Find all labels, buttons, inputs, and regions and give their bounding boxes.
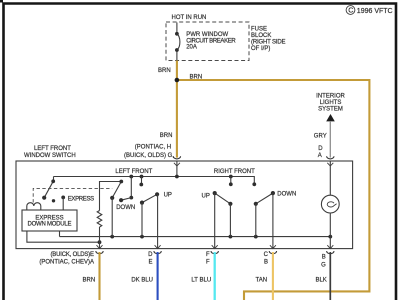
power bus wire inside switch: [54, 177, 255, 185]
wire ground bus to connector B: [329, 237, 331, 249]
label: FUSE BLOCK (RIGHT SIDE OF I/P): [251, 26, 286, 52]
resistor R bottom lead: [99, 227, 101, 242]
wire left front UP output down to connector D: [157, 194, 159, 248]
wire up blade to ground bus A: [141, 203, 143, 237]
svg-text:PWR WINDOW: PWR WINDOW: [186, 32, 228, 38]
svg-text:LIGHTS: LIGHTS: [320, 100, 342, 106]
express switch pivot riser: [53, 177, 55, 182]
wire BRN to window motor (bottom): [98, 252, 100, 300]
svg-text:BRN: BRN: [83, 278, 96, 284]
svg-text:20A: 20A: [186, 45, 197, 51]
wire BRN main feed: junction right then down right side then bottom elbow: [177, 80, 370, 300]
svg-text:DOWN: DOWN: [116, 205, 135, 211]
svg-text:DOWN MODULE: DOWN MODULE: [28, 221, 72, 227]
svg-text:UP: UP: [164, 193, 172, 199]
svg-text:OF I/P): OF I/P): [251, 46, 270, 52]
svg-text:(BUICK, OLDS)E: (BUICK, OLDS)E: [51, 252, 95, 258]
svg-text:BLOCK: BLOCK: [251, 33, 271, 39]
express down module connector comb: [27, 203, 41, 210]
junction dots on bus: [129, 175, 133, 179]
resistor R zigzag: [97, 211, 102, 228]
right front UP switch blade: [215, 193, 231, 204]
copyright notice: [346, 6, 392, 15]
express down module box: [22, 210, 77, 231]
wire right front UP output down to connector F: [214, 193, 216, 248]
svg-text:LEFT FRONT: LEFT FRONT: [115, 169, 152, 175]
svg-text:HOT IN RUN: HOT IN RUN: [172, 15, 207, 21]
svg-text:WINDOW SWITCH: WINDOW SWITCH: [24, 153, 76, 159]
corner mark: [0, 0, 3, 3]
svg-text:(RIGHT SIDE: (RIGHT SIDE: [251, 39, 286, 45]
svg-text:GRY: GRY: [314, 134, 327, 140]
wire LT BLU: [214, 252, 216, 300]
bottom connector arrowheads: [97, 245, 334, 248]
svg-text:SYSTEM: SYSTEM: [318, 107, 343, 113]
svg-text:E: E: [148, 260, 152, 266]
express switch contacts: [52, 199, 55, 202]
mechanical linkage dashed line: [33, 188, 112, 202]
ground bus A inside switch: [60, 236, 331, 238]
wire right front DOWN output down to connector C: [272, 193, 274, 248]
svg-text:(PONTIAC, H: (PONTIAC, H: [135, 144, 171, 150]
resistor R top lead and link to down pivot: [100, 182, 122, 211]
left front DOWN switch blade (express linked): [112, 182, 121, 198]
svg-text:BRN: BRN: [158, 68, 171, 74]
arrow to interior lights system: [326, 114, 335, 121]
wire right front UP blade to ground bus A: [229, 204, 231, 237]
right front feed stub: [230, 177, 232, 185]
wire express contact to module: [62, 197, 64, 210]
svg-text:B: B: [264, 260, 268, 266]
off-page reference: INTERIOR LIGHTS SYSTEM: [316, 93, 345, 112]
junction dots on bus A: [110, 235, 114, 239]
circuit breaker CB arc: [177, 34, 180, 50]
illumination lamp L1: [321, 195, 339, 213]
wire lamp to ground bus A: [329, 213, 331, 237]
wire from down blade to ground bus A: [111, 198, 113, 237]
left front window switch box: [16, 161, 353, 249]
circuit breaker CB contact dots: [175, 32, 179, 36]
wire from connector G/H down to bus: [176, 161, 178, 177]
svg-text:BRN: BRN: [160, 133, 173, 139]
svg-text:DOWN: DOWN: [277, 191, 296, 197]
left front DOWN fixed contact from bus: [130, 177, 132, 198]
svg-text:RIGHT FRONT: RIGHT FRONT: [214, 169, 255, 175]
junction node at BRN splice: [175, 78, 180, 83]
svg-text:A: A: [318, 153, 322, 159]
svg-text:(BUICK, OLDS) G,: (BUICK, OLDS) G,: [124, 153, 174, 159]
left front UP contact stub from bus: [141, 177, 143, 185]
svg-text:UP: UP: [202, 194, 210, 200]
right front DOWN switch blade: [256, 193, 273, 204]
svg-text:D: D: [148, 252, 153, 258]
svg-text:CIRCUIT BREAKER: CIRCUIT BREAKER: [186, 38, 236, 44]
wire TAN: [272, 252, 274, 300]
wire BLK: [329, 252, 331, 300]
svg-text:EXPRESS: EXPRESS: [68, 197, 95, 203]
wire GRY from arrow to connector A: [329, 121, 331, 158]
svg-text:F: F: [206, 252, 210, 258]
svg-text:F: F: [206, 260, 210, 266]
bottom connector sockets (arcs below box edge): [96, 251, 334, 254]
junction dot on bus B: [98, 240, 102, 244]
svg-text:LT BLU: LT BLU: [191, 278, 211, 284]
svg-text:(PONTIAC, CHEV)A: (PONTIAC, CHEV)A: [39, 260, 94, 266]
svg-text:FUSE: FUSE: [251, 26, 267, 32]
svg-text:BLK: BLK: [315, 278, 326, 284]
module lead right to bus A: [59, 231, 61, 237]
connector G/H at box top: socket cup and arrowhead: [173, 156, 180, 159]
svg-text:C: C: [264, 252, 269, 258]
label: PWR WINDOW CIRCUIT BREAKER 20A: [186, 32, 236, 51]
svg-text:C: C: [348, 6, 353, 15]
left front DOWN lower blade: [121, 198, 131, 201]
left front UP switch blade: [142, 194, 157, 202]
express switch blade: [44, 181, 53, 197]
svg-text:TAN: TAN: [256, 278, 268, 284]
wire BRN junction down to switch connector G/H: [176, 80, 178, 158]
fuse block dashed box: [166, 22, 249, 61]
wire right front DOWN blade to ground bus A: [255, 204, 257, 237]
svg-text:D: D: [318, 146, 323, 152]
wire resistor/module bus B to connector E/A: [99, 242, 101, 248]
svg-text:INTERIOR: INTERIOR: [316, 93, 345, 99]
wire DK BLU: [157, 252, 159, 300]
circuit breaker CB leads: [176, 23, 178, 61]
wire BRN from breaker to junction: [176, 61, 178, 81]
wire from connector A down to lamp: [329, 161, 331, 195]
connector A at box top: socket cup and arrowhead: [327, 156, 334, 159]
svg-text:B: B: [322, 255, 326, 261]
svg-text:DK BLU: DK BLU: [131, 278, 153, 284]
svg-text:LEFT FRONT: LEFT FRONT: [34, 146, 71, 152]
module lead left to bus B: [27, 231, 100, 242]
svg-text:1996 VFTC: 1996 VFTC: [357, 8, 393, 15]
svg-text:G: G: [321, 263, 326, 269]
